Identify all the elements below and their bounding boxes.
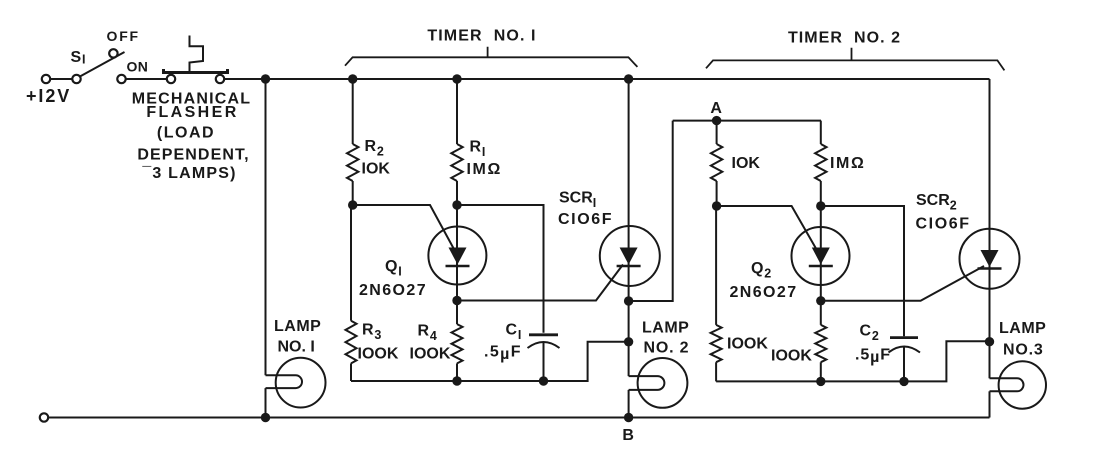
mechanical flasher left terminal <box>167 75 175 83</box>
svg-text:CIO6F: CIO6F <box>558 211 613 228</box>
svg-text:ON: ON <box>127 59 149 75</box>
switch S1 OFF contact <box>109 49 117 57</box>
wire C1 top <box>457 205 544 333</box>
node lamp1-bus junction <box>261 413 270 422</box>
switch S1 pivot <box>72 75 80 83</box>
resistor 10K timer2 <box>716 121 718 206</box>
node Q2 cathode junction <box>816 296 825 305</box>
svg-text:+I2V: +I2V <box>26 86 71 106</box>
node C2-bottom junction <box>899 377 908 386</box>
mechanical flasher bimetal element <box>190 36 204 73</box>
brace TIMER NO.2 <box>706 48 1004 71</box>
svg-text:IOOK: IOOK <box>771 348 812 365</box>
wire lamp1 to bus <box>265 388 267 417</box>
wire timer1 bottom node <box>351 342 629 381</box>
resistor R2 <box>352 79 354 205</box>
node rail-lamp1 junction <box>261 74 270 83</box>
wire timer2 bottom node <box>716 341 989 381</box>
wire +12V rail <box>225 78 990 80</box>
switch S1 blade <box>79 52 125 77</box>
wire C2 top <box>821 206 904 336</box>
node R2-R3-gate junction <box>348 200 357 209</box>
thyristor SCR2 C106F <box>960 229 1020 289</box>
wire SCR2 gate <box>821 266 984 301</box>
svg-text:IOOK: IOOK <box>410 346 451 363</box>
node SCR1 cathode junction <box>624 296 633 305</box>
node R4-bottom junction <box>452 376 461 385</box>
svg-text:IOOK: IOOK <box>727 336 768 353</box>
node rail-R2 junction <box>348 74 357 83</box>
svg-text:LAMP: LAMP <box>999 320 1046 337</box>
wire SCR1 cathode to node A <box>629 121 673 301</box>
svg-text:LAMP: LAMP <box>274 318 321 335</box>
node lamp2-riser junction <box>624 337 633 346</box>
svg-text:.5µF: .5µF <box>484 344 522 364</box>
svg-text:2N6O27: 2N6O27 <box>730 284 798 301</box>
svg-text:NO. I: NO. I <box>278 339 315 356</box>
wire bottom bus <box>49 417 990 419</box>
wire node A line <box>673 120 821 122</box>
capacitor C1 <box>528 335 560 381</box>
resistor 100K timer2 left <box>715 206 717 381</box>
svg-text:2N6O27: 2N6O27 <box>359 282 427 299</box>
resistor R3 <box>350 205 352 381</box>
wire <box>51 78 73 80</box>
node C1-bottom junction <box>539 376 548 385</box>
svg-text:SI: SI <box>71 49 87 67</box>
svg-text:(LOAD: (LOAD <box>157 125 215 142</box>
lamp LAMP NO.1 <box>266 358 326 408</box>
lamp LAMP NO.2 <box>629 358 688 408</box>
transistor Q1 2N6027 <box>428 205 486 301</box>
svg-text:TIMER NO. 2: TIMER NO. 2 <box>788 30 901 47</box>
node 10K-100K junction <box>712 201 721 210</box>
node SCR2 cathode junction <box>985 337 994 346</box>
resistor 100K timer2 right <box>820 301 822 382</box>
svg-text:NO.3: NO.3 <box>1003 342 1044 359</box>
wire SCR1 gate <box>457 265 623 301</box>
mechanical flasher contact bar <box>164 69 228 73</box>
resistor R1 <box>456 79 458 205</box>
wire lamp2 feed <box>628 301 630 376</box>
svg-text:.5µF: .5µF <box>855 347 891 367</box>
mechanical flasher right terminal <box>216 75 224 83</box>
node 1M-Q2 junction <box>816 201 825 210</box>
wire lamp3 to bus <box>989 391 991 417</box>
node rail-R1 junction <box>452 74 461 83</box>
svg-text:B: B <box>622 427 634 444</box>
wire lamp1 feed <box>265 79 267 375</box>
node rail-SCR1 junction <box>624 74 633 83</box>
transistor Q2 2N6027 <box>792 206 850 301</box>
node 100K-bottom junction <box>816 377 825 386</box>
svg-text:¯3 LAMPS): ¯3 LAMPS) <box>141 165 236 182</box>
wire Q2 gate <box>717 206 818 252</box>
wire SCR2 anode drop <box>989 79 991 342</box>
resistor 1M timer2 <box>820 121 822 206</box>
resistor R4 <box>456 301 458 382</box>
lamp LAMP NO.3 <box>990 361 1047 408</box>
wire lamp3 feed <box>989 342 991 379</box>
switch S1 ON contact <box>117 75 125 83</box>
node R1-Q1 anode junction <box>452 200 461 209</box>
capacitor C2 <box>889 338 921 382</box>
svg-text:IMΩ: IMΩ <box>830 155 865 172</box>
svg-text:CIO6F: CIO6F <box>916 216 971 233</box>
svg-text:FLASHER: FLASHER <box>146 104 238 121</box>
svg-text:DEPENDENT,: DEPENDENT, <box>137 147 249 164</box>
wire lamp2 to bus <box>628 390 630 418</box>
svg-text:OFF: OFF <box>107 28 140 44</box>
svg-text:IOK: IOK <box>732 155 761 172</box>
node A junction <box>712 116 721 125</box>
svg-text:IMΩ: IMΩ <box>467 161 502 178</box>
svg-text:TIMER NO. I: TIMER NO. I <box>427 28 536 45</box>
brace TIMER NO.1 <box>345 47 637 67</box>
node +12V terminal <box>42 75 50 83</box>
node bus left terminal <box>40 413 48 421</box>
wire <box>126 78 167 80</box>
svg-text:NO. 2: NO. 2 <box>644 340 690 357</box>
node lamp2-bus junction B <box>624 413 633 422</box>
thyristor SCR1 C106F <box>600 79 660 301</box>
wire Q1 gate <box>353 205 455 251</box>
svg-text:IOOK: IOOK <box>358 346 399 363</box>
svg-text:IOK: IOK <box>362 161 391 178</box>
svg-text:LAMP: LAMP <box>642 320 689 337</box>
svg-text:A: A <box>710 100 722 117</box>
node Q1 cathode junction <box>452 296 461 305</box>
